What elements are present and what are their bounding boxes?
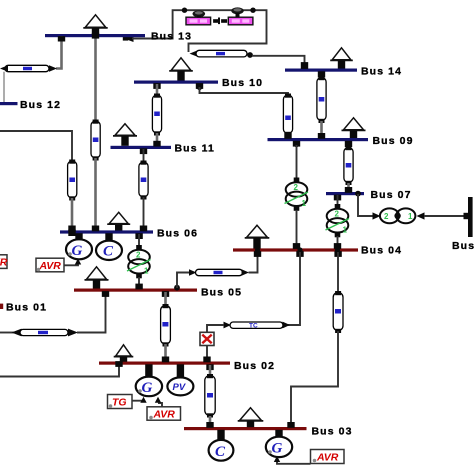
market demand block (magenta) (228, 17, 253, 25)
market supply block (magenta) (186, 17, 211, 25)
load at Bus 02 (114, 345, 134, 362)
svg-text:1: 1 (302, 199, 307, 208)
TG turbine governor at Bus 02 (108, 395, 133, 409)
line 10-11 plug below Bus 10 (153, 83, 160, 89)
AVR at Bus 03 (311, 450, 345, 464)
bus Bus 01 (clipped at left) (0, 302, 47, 314)
svg-text:G: G (142, 380, 153, 396)
svg-text:G: G (72, 243, 83, 259)
line 2-5 wire upper (164, 292, 167, 306)
line 10-11 pill (152, 94, 161, 136)
line 3-4 plug below Bus 04 (334, 251, 341, 257)
svg-text:Bus 02: Bus 02 (234, 360, 275, 372)
line 6-13 wire lower (94, 158, 97, 230)
junction dot on market wire left (182, 8, 187, 13)
transformer 9-4 junction at Bus 09 (293, 141, 300, 147)
line 4-5 pill (196, 269, 243, 275)
transformer 7-4 wire to Bus 04 (334, 236, 341, 253)
line 12-13 wire from Bus 13 (56, 36, 65, 69)
bus Bus 11 (111, 143, 215, 155)
line 6-11 wire upper (143, 149, 145, 163)
svg-text:Bus 12: Bus 12 (20, 99, 61, 111)
line 6-11 plug below Bus 11 (140, 148, 147, 154)
line 13-14 pill (196, 50, 247, 57)
line 10-11 wire upper (156, 84, 159, 96)
line 2-4 junction below Bus 04 (296, 247, 303, 257)
load at Bus 05 (85, 267, 109, 289)
load at Bus 06 (107, 212, 130, 230)
load at Bus 09 (342, 118, 366, 138)
svg-text:1: 1 (144, 267, 149, 276)
line 4-5 arrow right (242, 269, 250, 276)
line 13-14 wire to Bus 14 (252, 56, 308, 69)
line 2-3 pill (205, 374, 215, 418)
line 1-5 wire to Bus 05 (77, 291, 109, 332)
market coupler symbol (213, 18, 227, 25)
load at Bus 11 (113, 124, 137, 146)
transformer 7-4 plug below Bus 07 (334, 195, 341, 201)
load at Bus 04 (245, 225, 270, 248)
svg-text:G: G (272, 441, 283, 457)
transformer T 5-6 (127, 234, 151, 278)
svg-text:Bus 06: Bus 06 (157, 228, 198, 240)
market connector ellipse 2 (231, 7, 244, 17)
line 4-5 wire to Bus 04 (249, 247, 262, 272)
svg-text:2: 2 (384, 212, 389, 221)
PV generator at Bus 02 (167, 364, 193, 395)
svg-text:2: 2 (294, 183, 299, 192)
transformer 7-8 arrow right (417, 212, 425, 219)
wire G to AVR at Bus 03 (274, 456, 311, 464)
line 12-6 wire from left edge (0, 131, 72, 162)
svg-text:C: C (215, 444, 226, 460)
line 2-4 pill with TC (230, 322, 283, 329)
line 12-13 arrow left (0, 65, 8, 72)
junction dot Bus 13 at x95 (92, 33, 99, 39)
svg-text:TG: TG (112, 397, 127, 409)
generator G at Bus 02 (136, 364, 162, 396)
svg-text:AVR: AVR (316, 452, 339, 464)
line 2-3 plug below Bus 02 (206, 364, 213, 370)
transformer 7-8 junction on Bus 07 (355, 191, 361, 197)
load at Bus 14 (330, 48, 353, 69)
line 1-5 pill (20, 329, 68, 335)
line 2-5 pill (161, 304, 171, 347)
line 12-13 pill (5, 65, 49, 71)
generator G at Bus 06 (66, 233, 92, 259)
bus Bus 03 (184, 426, 353, 438)
breaker (red X) (200, 332, 214, 345)
bus Bus 14 (285, 66, 402, 78)
line 2-4 wire to breaker (207, 325, 224, 332)
line 4-5 junction on Bus 05 (174, 285, 180, 291)
AVR at Bus 02 (147, 407, 181, 421)
line 7-9 pill (344, 146, 353, 185)
svg-text:2: 2 (335, 210, 340, 219)
bus Bus 05 (74, 287, 242, 299)
condenser C at Bus 03 (209, 430, 234, 461)
line 1-5 arrow left (12, 329, 22, 337)
line 1-5 arrow right (68, 329, 78, 337)
bus Bus 08 (vertical) (452, 197, 474, 252)
svg-text:Bus 10: Bus 10 (222, 77, 263, 89)
transformer 5-6 plug below Bus 06 (135, 233, 142, 239)
line 3-4 wire jog to Bus 03 (287, 331, 338, 428)
bus Bus 02 (99, 360, 275, 372)
wire AVR to G at Bus 02 (155, 397, 162, 407)
line 2-4 arrow right (283, 322, 291, 329)
line 12-13 wire to Bus 12 (3, 72, 5, 102)
line 6-13 plug at Bus 06 (92, 226, 99, 232)
transformer T 9-4 (285, 178, 309, 211)
line 12-6 wire to Bus 06 (68, 198, 75, 236)
line 9-14 wire to Bus 09 (318, 121, 325, 139)
bus Bus 04 (233, 245, 402, 257)
market connector ellipse 1 (193, 10, 206, 17)
generator G at Bus 03 (266, 430, 292, 457)
line 10-11 wire to Bus 11 (153, 133, 160, 147)
transformer 7-8 wire to Bus 08 (424, 213, 469, 219)
wire TG to G at Bus 02 (132, 397, 147, 403)
line 9-10 pill (283, 94, 292, 137)
AVR for G at Bus 06 (36, 258, 64, 272)
line 1-5 wire from left edge (0, 332, 14, 334)
line 4-5 wire left (177, 273, 190, 289)
line 2-4 wire right (288, 252, 300, 325)
svg-text:PV: PV (173, 382, 186, 393)
transformer 7-8 arrow into transformer (373, 212, 381, 219)
load at Bus 10 (169, 58, 193, 81)
line 6-13 wire upper (94, 37, 97, 122)
AVR at left edge (clipped) (0, 255, 8, 269)
condenser C at Bus 06 (96, 233, 122, 260)
svg-text:Bus 03: Bus 03 (312, 426, 353, 438)
line 2-3 wire to Bus 03 (206, 416, 213, 428)
svg-text:1: 1 (408, 212, 413, 221)
bus Bus 10 (134, 77, 263, 89)
svg-text:AVR: AVR (39, 260, 62, 272)
bus Bus 06 (60, 228, 198, 240)
line 2 feeder wire from left edge (0, 361, 123, 376)
transformer T 7-8 (horizontal) (380, 208, 416, 223)
line 9-10 junction below Bus 10 (196, 83, 203, 90)
wire AVR to G at Bus 06 (64, 259, 81, 266)
transformer T 7-4 (326, 195, 350, 237)
line 9-10 wire (200, 87, 289, 96)
line 9-14 pill (317, 76, 326, 123)
svg-text:1: 1 (343, 226, 348, 235)
breaker wire to Bus 02 (203, 346, 210, 363)
line 2-4 arrow left (224, 322, 232, 329)
transformer 9-4 wire to Bus 04 (293, 210, 300, 249)
line 2-5 plug below Bus 05 (162, 291, 169, 297)
bus Bus 13 (45, 31, 192, 43)
line 9-10 wire to Bus 09 (284, 133, 291, 139)
bus Bus 12 (0, 99, 61, 111)
load at Bus 03 (238, 408, 264, 427)
svg-text:2: 2 (136, 251, 141, 260)
market box wire loop from Bus 13 (123, 10, 267, 52)
line 3-4 wire upper (337, 252, 339, 293)
svg-text:Bus 05: Bus 05 (201, 287, 242, 299)
svg-text:Bus 14: Bus 14 (361, 66, 402, 78)
line 6-11 pill (139, 161, 148, 200)
line 7-9 plug below Bus 09 (345, 141, 352, 147)
line 6-13 pill (91, 120, 100, 161)
svg-text:Bus 07: Bus 07 (371, 189, 412, 201)
bus Bus 09 (268, 135, 414, 147)
line 12-6 pill (68, 160, 77, 201)
line 9-14 plug below Bus 14 (318, 71, 325, 77)
svg-text:Bus 13: Bus 13 (151, 31, 192, 43)
svg-text:Bus 11: Bus 11 (175, 143, 215, 155)
line 13-14 junction dot (247, 52, 253, 58)
line 4-5 arrow left (189, 269, 197, 276)
junction dot on market wire right (250, 8, 255, 13)
line 13-14 arrow left (190, 50, 198, 56)
svg-text:AVR: AVR (0, 257, 8, 269)
line 7-9 wire to Bus 07 (345, 183, 352, 193)
svg-text:Bus 08: Bus 08 (452, 240, 474, 252)
line 2-5 wire to Bus 02 (162, 344, 169, 362)
transformer 9-4 wire upper (296, 145, 298, 181)
svg-text:Bus 09: Bus 09 (373, 135, 414, 147)
line 3-4 pill (333, 291, 343, 333)
svg-text:C: C (103, 244, 114, 260)
line 6-11 wire to Bus 06 (140, 197, 147, 231)
bus Bus 07 (326, 189, 412, 201)
svg-text:Bus 04: Bus 04 (361, 245, 402, 257)
load at Bus 13 (83, 15, 107, 35)
line 2-3 wire upper (209, 365, 212, 376)
line 12-13 arrow right (49, 65, 57, 72)
svg-text:Bus 01: Bus 01 (6, 302, 47, 314)
transformer 7-8 wire left (358, 194, 373, 216)
svg-text:AVR: AVR (153, 409, 176, 421)
svg-text:TC: TC (249, 322, 258, 329)
transformer 5-6 wire to Bus 05 (135, 277, 142, 289)
